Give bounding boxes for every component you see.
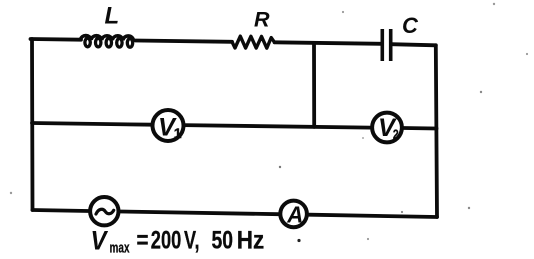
svg-text:L: L — [105, 3, 120, 30]
svg-text:V: V — [91, 226, 109, 256]
svg-text:1: 1 — [174, 125, 182, 141]
svg-text:Hz: Hz — [237, 227, 264, 255]
svg-text:V,: V, — [184, 227, 200, 255]
svg-text:200: 200 — [151, 227, 182, 255]
svg-text:max: max — [110, 240, 130, 257]
svg-text:50: 50 — [212, 227, 234, 255]
svg-text:=: = — [137, 227, 149, 255]
svg-text:2: 2 — [393, 127, 399, 142]
svg-text:R: R — [254, 8, 270, 32]
svg-text:A: A — [286, 201, 303, 227]
svg-text:C: C — [402, 13, 419, 38]
